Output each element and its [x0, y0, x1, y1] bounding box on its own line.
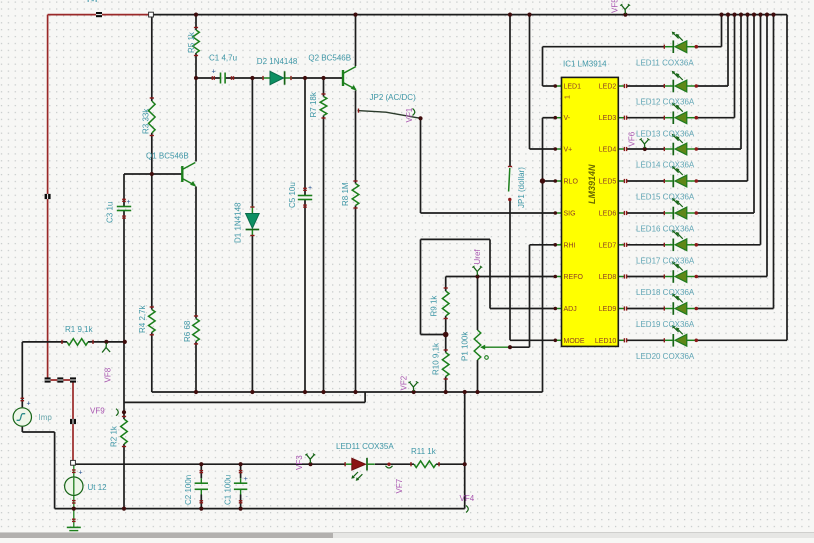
svg-text:JP1 (dollar): JP1 (dollar) [517, 167, 526, 208]
svg-text:C1 100u: C1 100u [224, 475, 233, 505]
svg-text:Q2 BC546B: Q2 BC546B [308, 54, 351, 63]
svg-text:LED17 COX36A: LED17 COX36A [636, 257, 695, 266]
svg-text:LED12 COX36A: LED12 COX36A [636, 98, 695, 107]
svg-text:+: + [212, 69, 216, 76]
svg-text:SIG: SIG [564, 211, 576, 218]
svg-text:VF8: VF8 [104, 367, 113, 382]
svg-text:LED2: LED2 [599, 84, 617, 91]
svg-text:LED20 COX36A: LED20 COX36A [636, 352, 695, 361]
svg-text:VF5: VF5 [611, 0, 620, 13]
svg-text:C1 4,7u: C1 4,7u [209, 54, 237, 63]
svg-text:VF1: VF1 [405, 107, 414, 122]
svg-text:+: + [308, 185, 312, 192]
svg-text:LED6: LED6 [599, 211, 617, 218]
svg-text:VF7: VF7 [395, 478, 404, 493]
svg-text:LED3: LED3 [599, 115, 617, 122]
svg-text:R3 33k: R3 33k [142, 108, 151, 134]
svg-text:LED11 COX36A: LED11 COX36A [636, 58, 694, 67]
svg-text:LED14 COX36A: LED14 COX36A [636, 161, 695, 170]
svg-text:LED16 COX36A: LED16 COX36A [636, 225, 695, 234]
svg-text:V+: V+ [564, 147, 573, 154]
svg-text:LED18 COX36A: LED18 COX36A [636, 288, 695, 297]
svg-text:+: + [79, 470, 83, 477]
svg-text:D2 1N4148: D2 1N4148 [257, 57, 298, 66]
svg-text:+: + [127, 199, 131, 206]
svg-text:LM3914N: LM3914N [587, 164, 597, 204]
svg-text:MODE: MODE [564, 338, 585, 345]
svg-text:R8 1M: R8 1M [341, 182, 350, 206]
svg-text:LED19 COX36A: LED19 COX36A [636, 320, 695, 329]
svg-text:IC1 LM3914: IC1 LM3914 [563, 60, 607, 69]
svg-text:LED11 COX35A: LED11 COX35A [336, 442, 394, 451]
svg-text:LED15 COX36A: LED15 COX36A [636, 193, 695, 202]
svg-text:LED1: LED1 [564, 84, 582, 91]
svg-text:VF2: VF2 [400, 375, 409, 390]
svg-text:R1 9,1k: R1 9,1k [65, 325, 94, 334]
svg-text:LED7: LED7 [599, 242, 617, 249]
svg-text:+: + [27, 401, 31, 408]
svg-text:ADJ: ADJ [564, 306, 577, 313]
svg-text:P1 100k: P1 100k [461, 331, 470, 361]
svg-text:Uref: Uref [473, 249, 482, 265]
svg-text:Q1 BC546B: Q1 BC546B [146, 152, 189, 161]
svg-text:Ut 12: Ut 12 [88, 483, 108, 492]
svg-text:R7 18k: R7 18k [309, 91, 318, 117]
svg-text:VF4: VF4 [460, 494, 475, 503]
svg-text:R11 1k: R11 1k [411, 447, 437, 456]
svg-text:LED4: LED4 [599, 147, 617, 154]
svg-text:Imp: Imp [39, 413, 53, 422]
svg-text:LED5: LED5 [599, 179, 617, 186]
svg-text:LED10: LED10 [595, 338, 617, 345]
svg-text:LED13 COX36A: LED13 COX36A [636, 129, 695, 138]
svg-text:RLO: RLO [564, 179, 579, 186]
svg-text:VF3: VF3 [295, 455, 304, 470]
svg-text:JP2 (AC/DC): JP2 (AC/DC) [370, 93, 417, 102]
svg-text:R5 1k: R5 1k [187, 31, 196, 53]
svg-text:R10 9,1k: R10 9,1k [432, 342, 441, 375]
svg-text:C2 100n: C2 100n [184, 475, 193, 505]
svg-text:+: + [244, 476, 248, 483]
svg-text:RHI: RHI [564, 242, 576, 249]
svg-text:C3 1u: C3 1u [106, 202, 115, 223]
svg-text:V-: V- [564, 115, 571, 122]
svg-text:C5 10u: C5 10u [288, 182, 297, 208]
svg-text:D1 1N4148: D1 1N4148 [234, 202, 243, 243]
svg-text:VF9: VF9 [90, 406, 105, 415]
svg-text:1: 1 [565, 95, 572, 99]
svg-text:R6 68: R6 68 [183, 320, 192, 342]
svg-text:LED9: LED9 [599, 306, 617, 313]
svg-text:REFO: REFO [564, 274, 584, 281]
svg-text:R2 1k: R2 1k [110, 425, 119, 447]
svg-text:R4 2,7k: R4 2,7k [138, 304, 147, 333]
svg-text:LED8: LED8 [599, 274, 617, 281]
svg-text:R9 1k: R9 1k [430, 295, 439, 317]
